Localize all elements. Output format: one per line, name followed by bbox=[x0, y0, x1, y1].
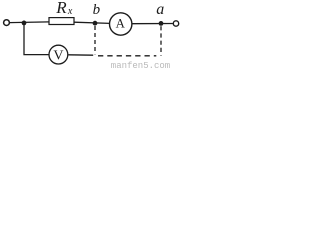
node junction left bbox=[22, 21, 27, 26]
wire dashed below b bbox=[94, 26, 96, 54]
wire dashed bottom bbox=[98, 55, 156, 57]
voltmeter V bbox=[49, 45, 68, 64]
svg-text:b: b bbox=[93, 2, 101, 18]
svg-text:manfen5.com: manfen5.com bbox=[111, 61, 170, 69]
svg-text:a: a bbox=[156, 1, 164, 18]
wire bbox=[68, 54, 93, 56]
wire bbox=[24, 23, 49, 55]
node a bbox=[159, 21, 164, 26]
wire bbox=[74, 22, 110, 23]
svg-text:A: A bbox=[116, 17, 126, 31]
wire dashed below a bbox=[160, 26, 162, 55]
wire bbox=[10, 21, 49, 24]
svg-text:V: V bbox=[53, 49, 63, 64]
node b bbox=[93, 21, 98, 26]
terminal left bbox=[4, 20, 10, 26]
ammeter A bbox=[110, 13, 132, 35]
resistor Rx bbox=[49, 18, 74, 25]
terminal right bbox=[173, 21, 178, 26]
wire bbox=[132, 23, 173, 25]
